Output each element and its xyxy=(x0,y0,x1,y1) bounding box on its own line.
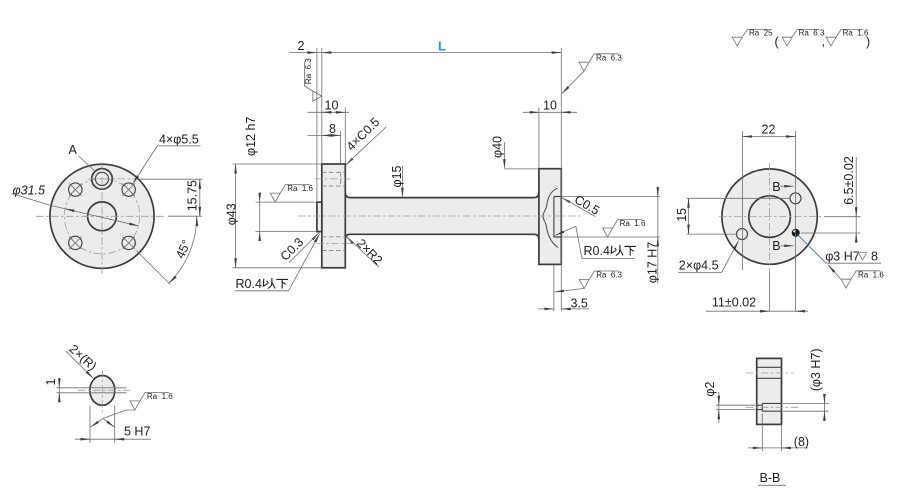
svg-text:φ43: φ43 xyxy=(224,203,238,225)
svg-text:22: 22 xyxy=(762,122,776,136)
svg-text:2×φ4.5: 2×φ4.5 xyxy=(679,259,719,273)
svg-text:): ) xyxy=(866,35,870,49)
svg-text:B: B xyxy=(772,180,780,194)
svg-text:6.5±0.02: 6.5±0.02 xyxy=(842,156,856,205)
svg-text:φ12 h7: φ12 h7 xyxy=(244,117,258,156)
svg-text:Ra 6.3: Ra 6.3 xyxy=(304,58,313,84)
svg-text:5 H7: 5 H7 xyxy=(124,425,150,439)
svg-text:11±0.02: 11±0.02 xyxy=(712,296,756,310)
svg-text:Ra 1.6: Ra 1.6 xyxy=(287,184,313,193)
svg-text:,: , xyxy=(822,35,825,49)
svg-text:15: 15 xyxy=(675,208,689,222)
svg-text:3.5: 3.5 xyxy=(571,296,588,310)
svg-text:1: 1 xyxy=(44,379,58,386)
svg-text:φ2: φ2 xyxy=(703,381,717,396)
svg-text:(8): (8) xyxy=(794,435,809,449)
svg-text:B: B xyxy=(772,239,780,253)
svg-text:R0.4: R0.4 xyxy=(236,277,262,291)
svg-text:φ15: φ15 xyxy=(390,165,404,187)
svg-text:2: 2 xyxy=(298,39,305,53)
svg-text:15.75: 15.75 xyxy=(185,180,199,211)
svg-text:Ra 1.6: Ra 1.6 xyxy=(147,392,173,401)
svg-text:Ra 6.3: Ra 6.3 xyxy=(596,271,622,280)
svg-text:L: L xyxy=(438,38,446,53)
svg-text:A: A xyxy=(69,143,78,157)
svg-text:φ3 H7: φ3 H7 xyxy=(825,249,860,263)
svg-text:4×φ5.5: 4×φ5.5 xyxy=(159,132,199,146)
svg-text:Ra 25: Ra 25 xyxy=(749,29,773,38)
svg-text:Ra 1.6: Ra 1.6 xyxy=(858,270,884,279)
svg-text:Ra 1.6: Ra 1.6 xyxy=(843,29,869,38)
svg-text:8: 8 xyxy=(329,122,336,136)
svg-text:2×R2: 2×R2 xyxy=(354,236,385,267)
svg-text:φ17 H7: φ17 H7 xyxy=(645,242,659,284)
svg-text:Ra 1.6: Ra 1.6 xyxy=(620,219,646,228)
svg-text:10: 10 xyxy=(543,98,557,112)
svg-text:(φ3 H7): (φ3 H7) xyxy=(809,348,823,391)
svg-text:45°: 45° xyxy=(173,238,194,261)
svg-text:(: ( xyxy=(775,35,780,49)
svg-text:8: 8 xyxy=(871,249,878,263)
svg-text:4×C0.5: 4×C0.5 xyxy=(344,115,383,154)
svg-text:B-B: B-B xyxy=(760,471,781,485)
svg-text:Ra 6.3: Ra 6.3 xyxy=(596,53,622,62)
svg-text:φ40: φ40 xyxy=(490,136,504,158)
svg-text:10: 10 xyxy=(325,98,339,112)
svg-text:R0.4: R0.4 xyxy=(584,244,610,258)
